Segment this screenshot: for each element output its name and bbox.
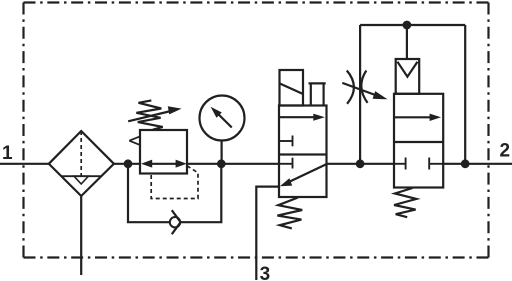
bypass wire left [128,164,170,222]
valve M1 return spring [277,198,302,229]
exhaust wire to port 3 [256,187,279,280]
svg-text:1: 1 [2,143,13,164]
wire valve M1 to valve V2 [327,163,395,165]
pilot drop wire [406,25,408,59]
pressure regulator R1 body [140,130,187,174]
junction node (pilot top tee) [404,22,411,29]
wire filter to regulator [114,163,140,165]
valve M1 exhaust flow arrow [280,164,327,186]
regulator adjustment arrow [128,106,181,121]
filter with water separator F1 [49,131,114,196]
manual override button [309,83,326,105]
regulator adjustment spring [136,100,162,129]
wire regulator to gauge tee [188,163,280,165]
gauge stem wire [221,140,223,163]
check valve V1 [170,210,181,234]
svg-text:2: 2 [500,141,511,162]
valve V2 blocked port T (right) [429,158,443,170]
3/2 solenoid valve M1 body [279,106,327,198]
valve M1 blocked port T (lower) [279,158,293,169]
junction node (pilot branch tee) [357,161,364,168]
valve M1 blocked port T (upper) [279,136,293,147]
3/2 pilot valve V2 body [394,94,443,188]
regulator pilot dashed line [151,166,198,199]
valve M1 top position flow arrow [279,114,325,121]
pressure gauge G1 [200,96,245,141]
pilot wire right riser [464,25,466,164]
drain wire [80,196,82,275]
solenoid coil of valve M1 [280,70,304,106]
valve V2 return spring [394,188,416,217]
valve V2 blocked port T (left) [394,158,406,170]
regulator relief vent triangle [129,136,140,145]
junction node (bypass tee left) [125,161,132,168]
throttle valve D1 [347,71,368,104]
throttle adjustment arrow [342,83,387,99]
pilot wire with throttle (left riser) [359,25,361,164]
svg-text:3: 3 [260,264,271,281]
junction node (gauge tee) [218,161,225,168]
pilot operator with check (valve V2) [396,59,420,94]
pilot top wire [360,24,465,26]
bypass wire right [181,164,222,222]
wire port 1 to filter [0,163,49,165]
wire valve V2 to port 2 [443,163,512,165]
junction node (pilot right tee) [462,161,469,168]
valve V2 top position flow arrow [394,114,441,121]
